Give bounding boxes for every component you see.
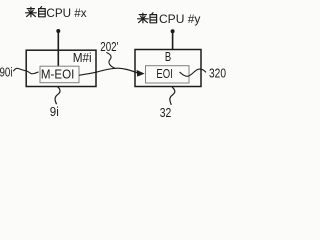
leader: 202' to arrow arc xyxy=(106,52,115,68)
svg-text:202': 202' xyxy=(100,40,118,54)
node dot: input from CPU #x xyxy=(56,29,60,33)
leader: 320 to EOI box xyxy=(180,69,207,76)
svg-text:B: B xyxy=(165,50,171,64)
wire: arc arrow from M#i to B xyxy=(96,68,137,73)
leader: 9i to box bottom xyxy=(55,87,60,105)
svg-text:32: 32 xyxy=(160,106,172,120)
leader: 90i to M-EOI box xyxy=(13,68,38,73)
leader: 32 to box bottom xyxy=(170,87,175,105)
wire: CPU #x input into M-EOI xyxy=(57,31,59,67)
svg-text:M-EOI: M-EOI xyxy=(41,68,74,82)
block B: outer box xyxy=(135,50,201,87)
svg-text:M#i: M#i xyxy=(73,51,92,65)
svg-text:EOI: EOI xyxy=(156,67,173,81)
svg-text:CPU #y: CPU #y xyxy=(159,12,200,26)
svg-text:9i: 9i xyxy=(50,105,59,119)
label: 来 (from) of "来自CPU #x" xyxy=(26,7,37,17)
node dot: input from CPU #y xyxy=(171,29,175,33)
label: 自 (from) of "来自CPU #x" xyxy=(39,7,46,17)
register M-EOI: inner box xyxy=(40,66,79,83)
svg-text:320: 320 xyxy=(209,67,226,81)
wire: CPU #y input into B xyxy=(172,31,174,50)
svg-text:CPU #x: CPU #x xyxy=(46,6,86,20)
register EOI: inner box xyxy=(146,66,190,83)
label: 来 of "来自 CPU #y" xyxy=(138,13,149,23)
arrowhead into EOI xyxy=(137,70,145,77)
svg-text:90i: 90i xyxy=(0,65,13,79)
wire: M-EOI output to arc xyxy=(79,72,96,75)
label: 自 of "来自 CPU #y" xyxy=(150,13,157,23)
block M#i: outer box xyxy=(26,50,96,86)
